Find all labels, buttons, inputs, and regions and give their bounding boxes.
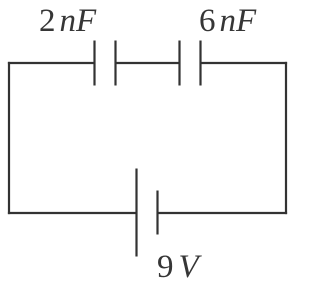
capacitor C2 6nF left plate — [178, 41, 180, 86]
capacitor C1 2nF right plate — [114, 41, 116, 86]
capacitor C1 2nF left plate — [93, 41, 95, 86]
wire top-left segment — [8, 62, 95, 64]
svg-text:2nF: 2nF — [39, 3, 97, 39]
wire between C1 and C2 — [116, 62, 180, 64]
wire right side — [285, 62, 287, 214]
wire bottom-left segment — [8, 212, 137, 214]
wire bottom-right segment — [158, 212, 288, 214]
wire top-right segment — [201, 62, 288, 64]
svg-text:9V: 9V — [157, 249, 203, 282]
battery B1 long plate (positive) — [135, 169, 137, 257]
wire left side — [8, 62, 10, 214]
capacitor C2 6nF right plate — [199, 41, 201, 86]
svg-text:6nF: 6nF — [199, 3, 257, 39]
battery B1 short plate (negative) — [156, 191, 158, 235]
